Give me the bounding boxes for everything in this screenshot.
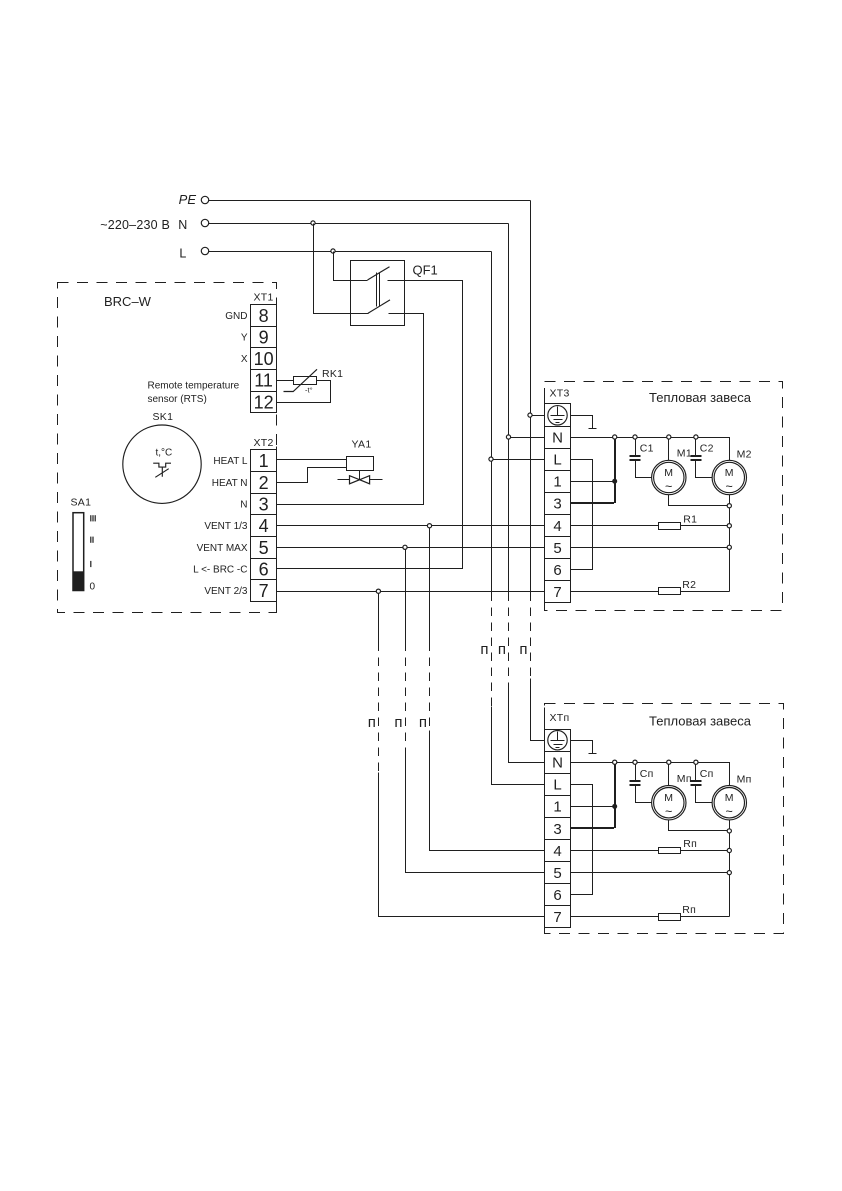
svg-text:5: 5 [259, 538, 269, 558]
capacitor C1 [635, 440, 637, 456]
svg-text:п: п [419, 714, 427, 731]
svg-text:7: 7 [259, 581, 269, 601]
svg-text:N: N [178, 218, 187, 232]
svg-text:Rп: Rп [683, 838, 697, 850]
XT1 edge extension [276, 302, 278, 305]
wire L branch to QF1 upper pole [334, 252, 368, 281]
wire PE vertical to XT3 [530, 201, 532, 416]
svg-text:4: 4 [259, 516, 269, 536]
wire PE vertical lower run [530, 416, 532, 593]
wire XT3-7 to R2 [571, 591, 659, 593]
XT2 cell 5 [251, 537, 277, 559]
svg-text:HEAT L: HEAT L [213, 456, 248, 467]
junction PE at XT3 [528, 413, 532, 417]
svg-text:QF1: QF1 [413, 263, 438, 278]
wire N distribution line n [571, 763, 730, 786]
SA1 mark I [90, 561, 91, 567]
wire XTn-1 to bridge [571, 806, 615, 808]
wire XT2-2 to YA1 coil [277, 468, 347, 483]
svg-text:7: 7 [553, 584, 561, 601]
svg-text:0: 0 [90, 582, 96, 593]
svg-text:N: N [240, 500, 247, 511]
wire XTn-4 to Rn1 [571, 850, 659, 852]
wire XT3-4 to R1 [571, 525, 659, 527]
thermistor RK1 body [294, 377, 317, 385]
YA1 stem [359, 471, 361, 480]
svg-text:t,°C: t,°C [156, 448, 173, 459]
svg-text:8: 8 [259, 306, 269, 326]
XT2 cell 2 [251, 472, 277, 494]
XTn cell 4 [545, 840, 571, 862]
svg-text:10: 10 [254, 349, 274, 369]
svg-text:п: п [519, 641, 527, 658]
valve YA1 coil [347, 457, 374, 471]
circuit breaker QF1 box [351, 261, 405, 326]
wire XT2-5 to XT3-5 [277, 547, 545, 549]
svg-text:3: 3 [553, 821, 561, 838]
SK1 contact symbol [153, 463, 171, 477]
svg-text:4: 4 [553, 518, 561, 535]
svg-text:M: M [664, 792, 673, 804]
XT2 cell 4 [251, 515, 277, 537]
XT1 cell 9 [251, 327, 277, 348]
XT3 cell 1 [545, 471, 571, 493]
wire motor common vertical [729, 508, 731, 592]
terminal N [201, 219, 208, 226]
svg-text:6: 6 [553, 887, 561, 904]
junction L at XT3 [489, 457, 493, 461]
svg-text:7: 7 [553, 909, 561, 926]
XTn cell 6 [545, 884, 571, 906]
capacitor Cn1 [635, 765, 637, 781]
XT1 cell 11 [251, 370, 277, 392]
wire L horizontal [209, 251, 492, 253]
svg-text:L: L [553, 777, 561, 794]
bold bridge N to 3 n [570, 762, 615, 828]
svg-text:п: п [480, 641, 488, 658]
svg-text:п: п [498, 641, 506, 658]
svg-text:3: 3 [259, 495, 269, 515]
junction motor common [727, 504, 731, 508]
wire XTn-5 to common [571, 872, 730, 874]
XT3 cell 4 [545, 515, 571, 537]
svg-text:XT1: XT1 [254, 292, 274, 304]
switch SA1 knob [73, 571, 84, 590]
wire M2 bottom lead [729, 495, 731, 506]
svg-text:XTп: XTп [550, 712, 570, 724]
capacitor Cn2 [695, 765, 697, 781]
svg-text:~: ~ [726, 480, 734, 494]
junction motor common n [727, 829, 731, 833]
XT1 cell 8 [251, 305, 277, 327]
svg-text:4: 4 [553, 843, 561, 860]
wire N vertical lower run [508, 438, 510, 593]
svg-text:3: 3 [553, 496, 561, 513]
junction filled 1-bridge [612, 479, 617, 484]
QF1 upper blade [368, 267, 390, 280]
XT3 cell 6 [545, 559, 571, 581]
wire M1 bottom lead [669, 495, 730, 506]
XTn cell 7 [545, 906, 571, 928]
svg-text:L: L [553, 452, 561, 469]
svg-text:M: M [725, 467, 734, 479]
svg-text:C1: C1 [640, 443, 654, 455]
junction Cn2 on N [694, 760, 698, 764]
SA1 mark III [90, 515, 91, 521]
XT3 cell PE [545, 404, 571, 427]
svg-text:M1: M1 [677, 448, 692, 460]
wire L into XT3 [494, 459, 545, 461]
wire XT2-7 to XT3-7 [277, 591, 545, 593]
svg-text:Y: Y [241, 333, 248, 344]
heat curtain 1 dashed box [545, 382, 783, 611]
svg-text:Cп: Cп [640, 768, 654, 780]
svg-text:Remote temperature: Remote temperature [148, 381, 240, 392]
XTn ground stub [571, 741, 597, 754]
junction on L line [331, 249, 335, 253]
XT2 cell 7 [251, 580, 277, 602]
wire XTn-7 to Rn2 [571, 916, 659, 918]
svg-text:RK1: RK1 [322, 368, 343, 380]
junction R1 common [727, 524, 731, 528]
wire XT2-4 to XT3-4 [277, 525, 545, 527]
wire Mn1 top lead [668, 765, 670, 786]
wire L to 6 bridge [571, 460, 593, 570]
XT1 cell 10 [251, 348, 277, 370]
svg-text:Rп: Rп [682, 904, 696, 916]
svg-text:XT2: XT2 [254, 437, 274, 449]
wire branch to XTn-7 [378, 594, 380, 643]
svg-text:R2: R2 [682, 579, 696, 591]
junction Rn1 common [727, 848, 731, 852]
wire XT1-11 to RK1 [277, 380, 294, 382]
junction bold on N [613, 435, 617, 439]
wire L to 6 bridge n [571, 785, 593, 895]
svg-text:VENT MAX: VENT MAX [197, 543, 248, 554]
wire PE into XT3 [533, 415, 545, 417]
XT3 cell 5 [545, 537, 571, 559]
junction VENT 2/3 branch [376, 589, 380, 593]
XT3 cell 3 [545, 493, 571, 515]
junction filled 1-bridge n [612, 804, 617, 809]
svg-text:Тепловая завеса: Тепловая завеса [649, 390, 752, 405]
XT3 cell N [545, 427, 571, 449]
svg-text:9: 9 [259, 327, 269, 347]
svg-text:R1: R1 [683, 513, 697, 525]
XT2 cell 1 [251, 450, 277, 472]
svg-text:YA1: YA1 [352, 439, 372, 451]
junction on N line [311, 221, 315, 225]
junction Mn1 on N [667, 760, 671, 764]
junction VENT 1/3 branch [427, 524, 431, 528]
svg-text:5: 5 [553, 540, 561, 557]
svg-text:~: ~ [665, 805, 673, 819]
junction C1 on N [633, 435, 637, 439]
svg-text:2: 2 [259, 473, 269, 493]
junction VENT MAX branch [403, 545, 407, 549]
svg-text:M: M [725, 792, 734, 804]
QF1 lower blade [368, 300, 390, 313]
XTn cell 1 [545, 796, 571, 818]
wire branch to XTn-5 [405, 550, 407, 643]
XTn cell L [545, 774, 571, 796]
svg-text:~: ~ [726, 805, 734, 819]
svg-text:XT3: XT3 [550, 387, 570, 399]
resistor R1 [659, 523, 681, 530]
wire Mn2 bottom lead [729, 820, 731, 831]
svg-text:BRC–W: BRC–W [104, 294, 152, 309]
XTn left edge [544, 708, 546, 934]
junction N at XT3 [506, 435, 510, 439]
junction Cn1 on N [633, 760, 637, 764]
switch SA1 body [73, 513, 84, 591]
XTn cell 3 [545, 818, 571, 840]
junction bold on N n [613, 760, 617, 764]
XT3 cell 7 [545, 581, 571, 603]
SA1 mark II [90, 537, 91, 543]
svg-text:~220–230 В: ~220–230 В [100, 218, 170, 232]
svg-text:N: N [552, 429, 563, 446]
svg-text:Mп: Mп [737, 774, 752, 786]
wire XT3-1 to bridge [571, 481, 615, 483]
svg-text:Тепловая завеса: Тепловая завеса [649, 713, 752, 728]
wire XT2-1 to YA1 coil [277, 459, 347, 461]
svg-text:L: L [179, 247, 186, 261]
svg-text:-t°: -t° [305, 386, 313, 395]
svg-text:N: N [552, 755, 563, 772]
svg-text:M: M [664, 467, 673, 479]
svg-text:6: 6 [553, 562, 561, 579]
XT3 cell L [545, 449, 571, 471]
QF1 linkage bars [377, 273, 380, 307]
svg-text:SA1: SA1 [71, 497, 92, 509]
heat curtain n dashed box [545, 704, 784, 934]
svg-text:X: X [241, 354, 248, 365]
resistor Rn1 [659, 848, 681, 854]
wire XT3-5 to common [571, 547, 730, 549]
terminal PE [201, 196, 208, 203]
svg-text:L <- BRC -C: L <- BRC -C [193, 565, 247, 576]
svg-text:VENT 2/3: VENT 2/3 [204, 586, 248, 597]
wire Mn1 bottom lead [669, 820, 730, 831]
XTn PE symbol [548, 731, 567, 750]
junction C2 on N [694, 435, 698, 439]
svg-text:HEAT N: HEAT N [212, 478, 248, 489]
svg-text:GND: GND [225, 311, 247, 322]
XT1 cell 12 [251, 392, 277, 413]
wire N vertical to XT3 [508, 224, 510, 438]
thermostat SK1 circle [123, 425, 201, 503]
XT3 left edge [544, 392, 546, 611]
XTn cell N [545, 752, 571, 774]
XT2 cell 6 [251, 559, 277, 580]
junction 5 common [727, 545, 731, 549]
motor Mn1 [652, 786, 686, 820]
wire N into XT3 [511, 437, 545, 439]
wire RK1 to XT1-12 [277, 381, 331, 403]
XT2 edge extensions [276, 447, 278, 613]
bold bridge N to 3 [570, 437, 615, 503]
svg-text:SK1: SK1 [153, 411, 174, 423]
wire N horizontal [209, 223, 509, 225]
svg-text:11: 11 [254, 371, 273, 391]
svg-text:1: 1 [259, 451, 269, 471]
RK1 diagonal [284, 369, 318, 391]
wire branch to XTn-4 [429, 528, 431, 643]
capacitor C2 [695, 440, 697, 456]
wire N branch to QF1 lower pole [314, 224, 369, 314]
svg-text:Mп: Mп [677, 773, 692, 785]
svg-text:п: п [368, 714, 376, 731]
wire L vertical lower run [491, 460, 493, 593]
svg-text:6: 6 [259, 559, 269, 579]
wire PE horizontal [209, 200, 531, 202]
motor M1 [652, 460, 686, 494]
XT3 ground stub [571, 416, 597, 429]
svg-text:1: 1 [553, 474, 561, 491]
XT3 PE symbol [548, 406, 567, 425]
wire M1 top lead [668, 440, 670, 461]
svg-text:M2: M2 [737, 449, 752, 461]
XT2 cell 3 [251, 494, 277, 515]
junction M1 on N [667, 435, 671, 439]
YA1 side pipes [338, 479, 383, 481]
wire N distribution line [571, 438, 730, 461]
svg-text:PE: PE [179, 192, 197, 207]
wire motor common vertical n [729, 834, 731, 917]
resistor R2 [659, 588, 681, 595]
svg-text:1: 1 [553, 799, 561, 816]
junction 5 common n [727, 871, 731, 875]
svg-text:sensor (RTS): sensor (RTS) [148, 394, 207, 405]
svg-text:п: п [394, 714, 402, 731]
motor Mn2 [712, 786, 746, 820]
wire QF1 upper output to XT2-6 [277, 281, 463, 569]
terminal L [201, 247, 208, 254]
XTn cell 5 [545, 862, 571, 884]
svg-text:Cп: Cп [700, 768, 714, 780]
svg-text:VENT 1/3: VENT 1/3 [204, 521, 248, 532]
svg-text:~: ~ [665, 480, 673, 494]
svg-text:5: 5 [553, 865, 561, 882]
motor M2 [712, 460, 746, 494]
YA1 valve body [350, 476, 370, 484]
svg-text:C2: C2 [700, 443, 714, 455]
controller BRC-W dashed box [58, 283, 277, 613]
wire L vertical to XT3 [491, 252, 493, 460]
resistor Rn2 [659, 914, 681, 921]
wire QF1 lower output to XT2-3 [277, 314, 424, 505]
XTn cell PE [545, 730, 571, 752]
svg-text:12: 12 [254, 392, 274, 412]
